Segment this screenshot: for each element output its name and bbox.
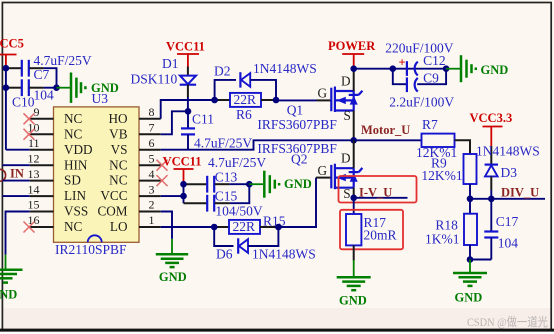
svg-text:GND: GND xyxy=(481,63,509,77)
resistor R17 20mR shunt xyxy=(346,198,397,246)
power symbol VCC11 top xyxy=(166,40,205,67)
wire C7 row xyxy=(6,67,21,69)
capacitor C7 xyxy=(22,53,92,82)
svg-text:1N4148WS: 1N4148WS xyxy=(253,61,317,76)
svg-text:HO: HO xyxy=(108,111,127,126)
wire R6 to Q1 gate xyxy=(276,99,317,101)
svg-text:104: 104 xyxy=(498,236,519,251)
svg-text:VS: VS xyxy=(111,142,128,157)
diode D1 DSK110 xyxy=(131,56,197,97)
svg-text:VCC11: VCC11 xyxy=(163,154,202,168)
svg-text:R7: R7 xyxy=(422,117,438,132)
svg-text:4.7uF/25V: 4.7uF/25V xyxy=(194,135,252,150)
svg-text:VCC11: VCC11 xyxy=(166,40,205,54)
junction node I-V xyxy=(350,195,357,202)
net label I-V_U with wire stub xyxy=(354,185,408,199)
svg-text:+: + xyxy=(399,55,406,69)
svg-text:4: 4 xyxy=(149,167,155,181)
svg-text:22R: 22R xyxy=(233,219,256,234)
power symbol VCC3.3 xyxy=(470,111,513,146)
resistor R7 12K xyxy=(416,117,457,160)
wire VDD rail corner to pin11 xyxy=(6,149,30,151)
svg-text:4.7uF/25V: 4.7uF/25V xyxy=(208,155,266,170)
svg-text:NC: NC xyxy=(109,157,128,172)
svg-text:Q1: Q1 xyxy=(287,102,304,117)
svg-text:15: 15 xyxy=(28,198,40,212)
svg-text:4.7uF/25V: 4.7uF/25V xyxy=(34,53,92,68)
svg-text:13: 13 xyxy=(28,167,40,181)
svg-text:VCC3.3: VCC3.3 xyxy=(470,111,513,125)
ground VSS bottom-left xyxy=(0,255,23,301)
U3 right pin numbers xyxy=(149,105,155,227)
wire Q1 source to motor node xyxy=(353,111,355,141)
ground POWER filter (rotated) xyxy=(446,55,508,82)
svg-text:104: 104 xyxy=(34,87,55,102)
wire VCC branch vertical xyxy=(183,184,185,203)
svg-text:7: 7 xyxy=(149,121,155,135)
svg-text:9: 9 xyxy=(34,105,40,119)
junction node Motor_U xyxy=(350,137,357,144)
capacitor C13 xyxy=(184,155,267,193)
port IN xyxy=(0,167,24,182)
wire VCC pin3 to branch xyxy=(161,195,184,197)
svg-text:NC: NC xyxy=(109,173,128,188)
capacitor C12 220uF/100V xyxy=(385,40,454,76)
svg-text:12: 12 xyxy=(28,151,40,165)
wire motor node to R7 xyxy=(354,139,422,141)
svg-text:8: 8 xyxy=(149,105,155,119)
capacitor C17 104 xyxy=(484,199,518,260)
svg-text:C7: C7 xyxy=(34,67,50,82)
resistor R18 1K xyxy=(425,199,477,247)
power symbol POWER xyxy=(328,39,376,66)
svg-text:GND: GND xyxy=(284,177,312,191)
svg-text:VB: VB xyxy=(109,126,128,141)
wire HO pin8 up to gate row xyxy=(161,100,215,119)
no-connect X pin 5 xyxy=(157,160,168,171)
transistor Q2 IRFS3607PBF xyxy=(257,141,362,201)
svg-text:G: G xyxy=(318,163,328,178)
wire LO pin1 to R15 xyxy=(161,226,215,228)
svg-text:C15: C15 xyxy=(215,188,238,203)
ground divider xyxy=(453,260,487,305)
diode D2 1N4148WS xyxy=(214,61,317,100)
wire DIV row xyxy=(470,198,545,200)
svg-text:NC: NC xyxy=(64,126,83,141)
svg-text:C9: C9 xyxy=(423,70,439,85)
svg-text:IRFS3607PBF: IRFS3607PBF xyxy=(257,117,337,132)
resistor R9 12K xyxy=(421,154,476,184)
resistor R15 22R xyxy=(214,213,286,234)
callout box R17 xyxy=(340,210,403,250)
junction nodes POWER rail xyxy=(350,65,449,72)
svg-text:3: 3 xyxy=(149,182,155,196)
svg-text:R6: R6 xyxy=(236,107,252,122)
svg-text:20mR: 20mR xyxy=(364,227,397,242)
junction dots VCC5 rail xyxy=(3,65,60,91)
svg-text:DIV_U: DIV_U xyxy=(501,186,539,200)
junction nodes LO drive xyxy=(211,224,282,231)
IC U3 IR2110SPBF body xyxy=(54,91,140,257)
svg-text:VCC: VCC xyxy=(100,188,127,203)
transistor Q1 IRFS3607PBF xyxy=(257,73,362,132)
wire R18 C17 to ground xyxy=(470,245,491,260)
svg-text:S: S xyxy=(344,108,351,123)
svg-text:D6: D6 xyxy=(216,247,233,262)
junction nodes DIV row xyxy=(467,196,495,203)
ground shunt R17 xyxy=(337,260,371,308)
svg-text:GND: GND xyxy=(159,270,187,284)
svg-text:22R: 22R xyxy=(234,92,257,107)
svg-text:C17: C17 xyxy=(496,214,519,229)
wire D3 to DIV node xyxy=(490,190,492,199)
svg-text:1: 1 xyxy=(149,213,155,227)
svg-text:DSK110: DSK110 xyxy=(131,72,178,87)
svg-text:D: D xyxy=(341,151,351,166)
U3 left pin labels xyxy=(64,111,93,234)
wire POWER rail to caps xyxy=(354,68,446,70)
svg-text:IRFS3607PBF: IRFS3607PBF xyxy=(257,141,337,156)
svg-text:1N4148WS: 1N4148WS xyxy=(252,247,316,262)
svg-text:C11: C11 xyxy=(192,112,214,127)
wire C7 to corner down to C10 node xyxy=(29,67,43,69)
resistor R6 22R xyxy=(215,92,276,122)
svg-text:C12: C12 xyxy=(423,53,446,68)
U3 right pin labels xyxy=(97,111,127,234)
wire Q1 drain to POWER xyxy=(353,66,355,91)
capacitor C9 2.2uF/100V xyxy=(389,69,454,110)
svg-text:14: 14 xyxy=(28,182,40,196)
no-connect X pin 9 xyxy=(24,113,35,124)
callout box I-V_U xyxy=(339,176,417,203)
svg-text:C13: C13 xyxy=(215,170,238,185)
svg-text:Motor_U: Motor_U xyxy=(361,123,410,137)
capacitor C15 xyxy=(184,184,263,218)
svg-text:HIN: HIN xyxy=(64,157,88,172)
svg-text:VCC5: VCC5 xyxy=(0,37,24,51)
svg-text:IN: IN xyxy=(10,167,24,181)
junction nodes gate drive HO xyxy=(211,97,279,104)
svg-text:G: G xyxy=(318,86,328,101)
svg-text:2.2uF/100V: 2.2uF/100V xyxy=(389,95,454,110)
U3 left pins xyxy=(30,119,54,227)
ground COM xyxy=(156,239,188,284)
svg-text:12K%1: 12K%1 xyxy=(421,168,462,183)
svg-text:GND: GND xyxy=(455,290,483,304)
wire R15 to Q2 gate xyxy=(278,178,316,227)
svg-text:GND: GND xyxy=(0,287,17,301)
wire SD from port xyxy=(3,180,30,182)
svg-text:GND: GND xyxy=(339,294,367,308)
capacitor C11 xyxy=(181,111,252,150)
svg-text:D: D xyxy=(341,73,351,88)
svg-text:1N4148WS: 1N4148WS xyxy=(476,143,540,158)
wire C10 to GND node xyxy=(29,87,43,89)
svg-text:5: 5 xyxy=(149,151,155,165)
svg-text:COM: COM xyxy=(97,204,127,219)
svg-text:D3: D3 xyxy=(501,165,518,180)
svg-text:16: 16 xyxy=(28,213,40,227)
wire Q2 source to shunt node xyxy=(353,188,355,198)
wire VSS to left and down xyxy=(6,212,30,255)
wire Q2 drain to motor node xyxy=(353,140,355,168)
svg-text:I-V_U: I-V_U xyxy=(359,185,392,199)
diode D6 1N4148WS xyxy=(214,227,316,262)
svg-text:NC: NC xyxy=(64,111,83,126)
junction node VB xyxy=(185,108,192,115)
wire C10 row xyxy=(6,87,21,89)
svg-text:S: S xyxy=(343,186,350,201)
diode D3 1N4148WS xyxy=(476,143,540,190)
svg-text:LO: LO xyxy=(110,219,128,234)
svg-text:D2: D2 xyxy=(214,63,231,78)
wire COM pin2 to ground xyxy=(161,212,172,239)
wire VCC5 rail vertical to VDD xyxy=(5,65,7,150)
wire LIN from sheet edge xyxy=(3,195,30,197)
svg-text:1K%1: 1K%1 xyxy=(425,231,460,246)
wire HIN from sheet edge xyxy=(3,164,30,166)
svg-text:6: 6 xyxy=(149,136,155,150)
no-connect X pin 10 xyxy=(24,129,35,140)
svg-text:LIN: LIN xyxy=(64,188,86,203)
svg-text:SD: SD xyxy=(64,173,81,188)
junction node R18 C17 xyxy=(467,256,474,263)
ground C13 C15 (rotated) xyxy=(249,171,311,198)
wire R17 to ground xyxy=(353,245,355,260)
wire VB pin7 to bootstrap node xyxy=(161,111,188,134)
wire R7 to R9 xyxy=(455,140,471,154)
svg-text:VDD: VDD xyxy=(64,142,93,157)
wire R9 to DIV node xyxy=(469,184,471,199)
svg-text:C10: C10 xyxy=(12,95,35,110)
svg-text:VSS: VSS xyxy=(64,204,88,219)
svg-text:NC: NC xyxy=(64,219,83,234)
capacitor C10 xyxy=(12,79,54,109)
svg-text:104/50V: 104/50V xyxy=(215,204,263,219)
no-connect X pin 16 xyxy=(24,222,35,233)
svg-text:D1: D1 xyxy=(162,56,179,71)
power symbol VCC5 xyxy=(0,37,24,65)
junction nodes VCC branch xyxy=(180,181,252,200)
wire D1 cathode to VB node xyxy=(187,97,189,111)
svg-text:CSDN @做一道光: CSDN @做一道光 xyxy=(467,315,548,329)
svg-text:POWER: POWER xyxy=(328,39,376,53)
svg-text:2: 2 xyxy=(149,198,155,212)
no-connect X pin 4 xyxy=(157,175,168,186)
wire VS pin6 to motor node xyxy=(161,140,354,149)
power symbol VCC11 lower xyxy=(163,154,202,184)
U3 right pins xyxy=(139,119,161,227)
U3 left pin numbers xyxy=(28,105,40,227)
svg-text:U3: U3 xyxy=(92,91,109,106)
svg-text:IR2110SPBF: IR2110SPBF xyxy=(55,242,127,257)
ground U3 decoupling (rotated) xyxy=(57,73,119,103)
